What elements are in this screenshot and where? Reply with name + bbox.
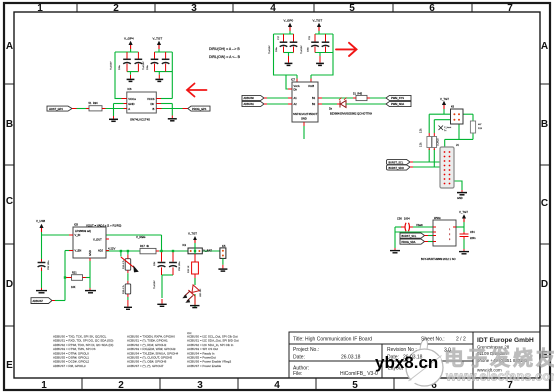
svg-text:C56 1004: C56 1004 [397, 217, 410, 221]
svg-text:PWM_SDA: PWM_SDA [391, 102, 404, 106]
svg-text:DIRL(OW) = A <-- B: DIRL(OW) = A <-- B [209, 55, 241, 59]
svg-text:Sheet No.:: Sheet No.: [421, 337, 445, 343]
svg-text:2: 2 [113, 3, 119, 14]
svg-text:100n: 100n [119, 64, 121, 70]
svg-text:www.elecfans.com: www.elecfans.com [445, 369, 554, 384]
svg-text:V_USB: V_USB [36, 219, 45, 223]
svg-text:TLA/16V: TLA/16V [153, 280, 156, 289]
svg-text:IDT Europe GmbH: IDT Europe GmbH [477, 337, 534, 344]
svg-text:V_REG: V_REG [136, 235, 145, 239]
svg-text:R17 4k: R17 4k [140, 244, 150, 248]
svg-text:IC8: IC8 [74, 224, 79, 227]
svg-text:V_TGT: V_TGT [188, 232, 197, 236]
svg-text:Dir: Dir [294, 87, 297, 91]
svg-text:2 / 2: 2 / 2 [456, 337, 466, 343]
svg-text:WS4x: WS4x [434, 217, 441, 220]
svg-text:GND: GND [457, 197, 463, 200]
svg-text:51 R34: 51 R34 [89, 101, 99, 105]
svg-text:ADJ: ADJ [98, 249, 104, 253]
svg-text:7: 7 [507, 3, 513, 14]
svg-text:D: D [541, 279, 548, 290]
svg-text:V_GP4: V_GP4 [124, 37, 134, 41]
svg-text:Project No.:: Project No.: [293, 347, 319, 353]
svg-text:BURST_SCL: BURST_SCL [402, 235, 417, 238]
svg-text:C55 100n: C55 100n [179, 261, 181, 271]
svg-text:GND: GND [301, 117, 307, 121]
svg-text:V_IN: V_IN [75, 233, 81, 237]
svg-text:1: 1 [37, 3, 43, 14]
svg-text:K3: K3 [183, 243, 187, 247]
svg-text:Vbatt: Vbatt [416, 223, 423, 227]
svg-text:V_TGT: V_TGT [459, 210, 468, 214]
svg-text:1: 1 [41, 380, 47, 391]
svg-text:K5: K5 [222, 244, 226, 248]
svg-text:PWM_SYS: PWM_SYS [391, 96, 404, 100]
svg-text:PROG_GP4: PROG_GP4 [192, 107, 207, 111]
svg-text:A1: A1 [294, 96, 298, 100]
svg-text:Date:: Date: [293, 355, 305, 361]
svg-text:100n: 100n [147, 64, 149, 70]
svg-text:V_TGT: V_TGT [440, 97, 449, 101]
svg-text:ADBUS1: ADBUS1 [244, 102, 255, 106]
svg-text:R21: R21 [72, 272, 77, 275]
svg-text:B: B [153, 107, 155, 111]
svg-text:D: D [6, 279, 13, 290]
svg-text:51 R45: 51 R45 [353, 92, 363, 96]
svg-text:V_EN: V_EN [75, 249, 82, 253]
svg-text:R18 4.7k: R18 4.7k [123, 284, 125, 294]
svg-text:DIRU(OH) = A --> B: DIRU(OH) = A --> B [209, 47, 240, 51]
svg-text:ACBUS7 = Power Enable: ACBUS7 = Power Enable [187, 364, 221, 368]
svg-text:4: 4 [270, 3, 276, 14]
svg-text:V_TGT: V_TGT [153, 37, 163, 41]
svg-text:3: 3 [197, 380, 203, 391]
svg-text:LED GN: LED GN [200, 288, 202, 297]
svg-text:SN74LVC2T45DCT: SN74LVC2T45DCT [293, 112, 318, 116]
svg-text:A: A [128, 107, 130, 111]
svg-text:SN74LVC1T45: SN74LVC1T45 [130, 118, 150, 122]
svg-text:ADBUS7: ADBUS7 [33, 299, 44, 303]
svg-text:2: 2 [118, 380, 124, 391]
svg-text:Title: High Communication IF B: Title: High Communication IF Board [293, 337, 372, 343]
svg-text:V_TGT: V_TGT [313, 19, 323, 23]
svg-text:C: C [6, 196, 13, 207]
svg-text:BCY-WURTH9883 2012 1 SO: BCY-WURTH9883 2012 1 SO [421, 257, 455, 261]
svg-text:HOST_GP4: HOST_GP4 [49, 107, 63, 111]
svg-text:5: 5 [352, 380, 358, 391]
svg-text:V_OUT: V_OUT [93, 238, 102, 242]
svg-text:IC6: IC6 [128, 88, 133, 91]
svg-text:LP38693 adj: LP38693 adj [75, 229, 91, 233]
svg-text:ACBUS7 = (*), (*), GPIOH7: ACBUS7 = (*), (*), GPIOH7 [127, 364, 164, 368]
svg-text:TLA/10V: TLA/10V [268, 45, 271, 54]
svg-text:5: 5 [349, 3, 355, 14]
svg-text:VCCb: VCCb [147, 97, 155, 101]
svg-text:TLA/10V: TLA/10V [300, 45, 303, 54]
svg-text:C_boot: C_boot [444, 126, 451, 129]
svg-text:ADBUS0: ADBUS0 [244, 96, 255, 100]
svg-text:22M: 22M [154, 262, 156, 266]
svg-text:TLA/10V: TLA/10V [142, 61, 145, 70]
svg-text:电子发烧友: 电子发烧友 [444, 346, 554, 370]
svg-text:V_GP0: V_GP0 [284, 19, 294, 23]
svg-text:220n: 220n [470, 237, 476, 240]
svg-text:3.0: 3.0 [444, 348, 451, 354]
svg-text:Dir: Dir [151, 102, 155, 106]
svg-text:B1: B1 [312, 96, 316, 100]
svg-text:10K: 10K [71, 286, 76, 289]
svg-text:GND: GND [88, 250, 92, 256]
svg-text:BURST_SCL: BURST_SCL [389, 162, 404, 165]
svg-text:3: 3 [191, 3, 197, 14]
svg-text:100n: 100n [308, 46, 310, 52]
svg-text:B2: B2 [312, 102, 316, 106]
svg-text:R15 1K: R15 1K [188, 265, 190, 273]
svg-text:VCCa: VCCa [128, 97, 136, 101]
svg-text:ybx8.cn: ybx8.cn [375, 353, 438, 372]
svg-text:C55 100n: C55 100n [48, 260, 50, 270]
svg-text:26.03.18: 26.03.18 [341, 355, 361, 361]
svg-text:ADBUS7 = RI#, GPIOL3: ADBUS7 = RI#, GPIOL3 [53, 364, 86, 368]
svg-text:BZX884S5V6/SOD882 QCI-IOTTKH: BZX884S5V6/SOD882 QCI-IOTTKH [330, 112, 372, 116]
svg-text:4.22V: 4.22V [108, 247, 115, 251]
svg-text:PROG_SDA: PROG_SDA [402, 241, 416, 244]
svg-text:B: B [6, 119, 13, 130]
svg-text:4: 4 [274, 380, 280, 391]
svg-text:TLA/10V: TLA/10V [110, 61, 113, 70]
svg-text:BURST_SDO: BURST_SDO [389, 167, 404, 170]
svg-text:File:: File: [293, 371, 302, 377]
svg-text:R16 4.7k: R16 4.7k [123, 259, 125, 269]
svg-text:6: 6 [429, 3, 435, 14]
svg-text:B: B [541, 119, 548, 130]
svg-text:100n: 100n [276, 46, 278, 52]
svg-text:A: A [541, 41, 548, 52]
svg-text:GND: GND [128, 102, 134, 106]
svg-text:A: A [6, 41, 13, 52]
svg-text:E: E [6, 360, 13, 371]
svg-text:VccB: VccB [308, 84, 314, 88]
svg-text:A2: A2 [294, 102, 298, 106]
svg-text:HiComIFB_ V3-0: HiComIFB_ V3-0 [340, 371, 378, 377]
svg-text:V_BAT: V_BAT [203, 248, 212, 252]
svg-text:C: C [541, 198, 548, 209]
svg-text:C54: C54 [470, 231, 475, 234]
svg-text:CON20: CON20 [438, 138, 440, 146]
svg-text:IC7: IC7 [291, 79, 296, 82]
svg-text:VOUT = VADJ x (1 + R1/R2): VOUT = VADJ x (1 + R1/R2) [86, 224, 121, 228]
